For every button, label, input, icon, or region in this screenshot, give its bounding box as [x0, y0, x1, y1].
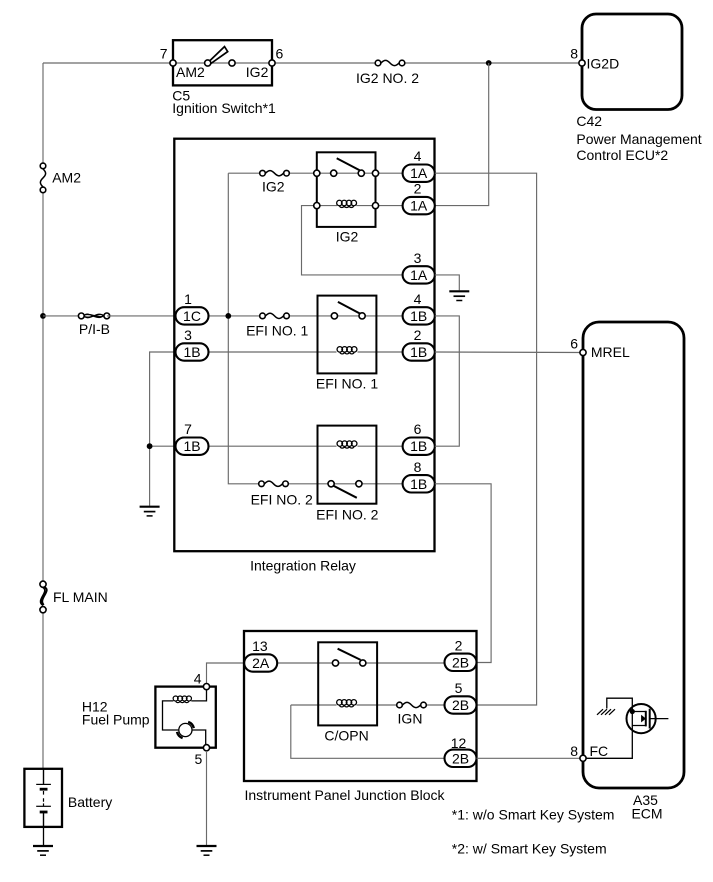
instrument panel junction block box: [244, 631, 477, 781]
relay EFI NO.2 contacts: [328, 481, 362, 487]
svg-text:5: 5: [455, 680, 463, 696]
wire: 1B pin8 down to 2B pin2 of junction block: [435, 484, 491, 663]
svg-text:FL MAIN: FL MAIN: [53, 589, 108, 605]
svg-text:P/I-B: P/I-B: [79, 321, 110, 337]
connector 1B pin2: [403, 343, 435, 360]
wire: rail to P/I-B symbol: [43, 315, 83, 317]
fuse EFI NO. 1: [260, 313, 290, 319]
svg-text:1B: 1B: [410, 344, 427, 360]
svg-text:FC: FC: [590, 743, 609, 759]
svg-text:1B: 1B: [183, 438, 200, 454]
svg-text:6: 6: [570, 335, 578, 351]
svg-text:1A: 1A: [410, 267, 428, 283]
fuse AM2 (vertical, on battery rail): [40, 163, 46, 193]
svg-text:5: 5: [195, 751, 203, 767]
svg-text:AM2: AM2: [176, 64, 205, 80]
fuel pump H12 box: [155, 687, 215, 748]
svg-text:4: 4: [414, 291, 422, 307]
relay EFI NO.2 box: [318, 426, 377, 504]
svg-text:8: 8: [414, 459, 422, 475]
relay EFI NO.1 coil: [337, 347, 357, 354]
svg-text:*1: w/o Smart Key System: *1: w/o Smart Key System: [452, 807, 615, 823]
svg-text:C42: C42: [576, 113, 602, 129]
node: junction 1C row / vertical branch: [225, 313, 231, 319]
connector 1B pin8: [403, 475, 435, 492]
twisted wire symbol P/I-B: [78, 313, 109, 319]
svg-text:Control ECU*2: Control ECU*2: [576, 147, 668, 163]
ECM output transistor (FET in circle): [627, 704, 669, 733]
svg-text:1C: 1C: [183, 308, 201, 324]
fuel pump coil: [173, 696, 191, 703]
svg-text:Power Management: Power Management: [576, 131, 701, 147]
fuse IG2 (integration relay): [260, 170, 290, 176]
svg-text:4: 4: [194, 670, 202, 686]
connector 1A pin3: [403, 266, 435, 283]
wire: 1C row from oval to 1B pin4 through EFI NO.1 relay: [209, 315, 403, 317]
fuel pump pin 5 terminal: [203, 745, 209, 751]
relay C/OPN box: [318, 642, 377, 725]
wire: P/I-B to connector 1C: [107, 315, 176, 317]
connector 1A pin4: [403, 165, 435, 182]
svg-text:Battery: Battery: [68, 794, 112, 810]
fuse IG2 NO. 2: [375, 60, 405, 66]
wire: IG2 relay coil left lead looping down to 1A pin3: [302, 206, 403, 275]
svg-text:IG2: IG2: [336, 229, 359, 245]
svg-text:*2: w/ Smart Key System: *2: w/ Smart Key System: [452, 840, 607, 856]
connector 2A pin13: [244, 654, 277, 671]
wire: 1A pin4 down right side to 2B pin5 of junction block: [435, 173, 537, 705]
node: junction on IG2D line: [486, 60, 492, 66]
pin 7 terminal of C5: [170, 60, 176, 66]
fuse FL MAIN (fusible link on battery rail): [40, 581, 47, 613]
svg-text:2B: 2B: [452, 697, 469, 713]
svg-text:8: 8: [570, 743, 578, 759]
power management control ECU C42 box: [582, 14, 682, 110]
relay IG2 coil terminals: [314, 203, 379, 209]
svg-text:3: 3: [414, 250, 422, 266]
svg-text:4: 4: [414, 148, 422, 164]
svg-text:6: 6: [276, 46, 284, 62]
relay EFI NO.2 coil: [337, 441, 357, 448]
connector 1C pin1: [176, 307, 209, 324]
svg-text:1B: 1B: [183, 344, 200, 360]
svg-text:Instrument Panel Junction Bloc: Instrument Panel Junction Block: [245, 787, 446, 803]
svg-text:AM2: AM2: [52, 170, 81, 186]
connector 2B pin12: [445, 750, 477, 767]
battery cell symbol: [36, 769, 51, 827]
wire: 1B pin3 to left then down to ground, over to 1B pin7: [150, 352, 176, 506]
svg-text:2: 2: [414, 327, 422, 343]
relay EFI NO.2 switch blade: [334, 486, 357, 498]
wire: top horizontal from rail to ignition switch pin 7: [43, 62, 173, 64]
svg-text:1B: 1B: [410, 438, 427, 454]
fuel pump motor symbol: [177, 722, 194, 738]
ECM A35 box: [583, 322, 684, 788]
relay IG2 coil: [337, 200, 357, 207]
svg-text:13: 13: [252, 638, 268, 654]
wire: IG2 fuse row inside integration relay: [228, 172, 402, 174]
svg-text:3: 3: [184, 327, 192, 343]
ECM internal FC wiring: [586, 698, 632, 758]
svg-text:1A: 1A: [410, 165, 428, 181]
relay IG2 contact terminals: [314, 170, 379, 176]
svg-text:2B: 2B: [452, 750, 469, 766]
connector 2B pin5: [445, 696, 477, 713]
connector 1B pin7: [176, 438, 209, 455]
wire: inside ignition switch pin7 to pin6: [173, 62, 272, 64]
wire: branch from IG2 fuse row down to 1C row and on to EFI NO.2 fuse: [228, 173, 258, 484]
svg-text:MREL: MREL: [591, 344, 630, 360]
svg-text:C/OPN: C/OPN: [324, 727, 368, 743]
wire: 1B pin2 to ECM MREL: [435, 351, 583, 354]
svg-text:EFI NO. 2: EFI NO. 2: [316, 507, 378, 523]
switch contact AM2: [205, 60, 211, 66]
svg-text:Ignition Switch*1: Ignition Switch*1: [172, 100, 276, 116]
svg-text:IGN: IGN: [398, 710, 423, 726]
ground below fuel pump: [197, 846, 217, 855]
wire: EFI NO.2 contact row from fuse to 1B pin8: [286, 483, 403, 485]
ground below 1B pin3/pin7 branch: [140, 507, 160, 516]
svg-text:EFI NO. 2: EFI NO. 2: [251, 492, 313, 508]
svg-text:EFI NO. 1: EFI NO. 1: [316, 375, 378, 391]
ground for IG2 relay coil (1A pin3): [449, 291, 469, 300]
svg-text:2: 2: [455, 637, 463, 653]
wire: 1A pin3 to ground: [435, 275, 460, 290]
fuse IGN: [397, 702, 427, 708]
svg-text:1B: 1B: [410, 476, 427, 492]
switch lever (ignition switch): [209, 47, 227, 64]
wire: EFI NO.2 coil row 1B pin7 to 1B pin6: [209, 445, 403, 447]
relay IG2 box: [317, 152, 376, 227]
svg-text:EFI NO. 1: EFI NO. 1: [246, 322, 308, 338]
wire: C/OPN coil row to IGN fuse and 2B pin5: [357, 704, 445, 706]
switch contact IG2: [229, 60, 235, 66]
svg-text:2B: 2B: [452, 654, 469, 670]
connector 1A pin2: [403, 197, 435, 214]
wire: 1B pin4 down to 1B pin6 (EFI NO.2 coil feed): [435, 316, 460, 446]
relay C/OPN switch blade: [338, 649, 361, 660]
wire: C/OPN coil left lead looping down to 2B pin12: [291, 705, 445, 758]
svg-text:1: 1: [184, 291, 192, 307]
relay EFI NO.1 box: [318, 296, 377, 374]
svg-text:8: 8: [570, 46, 578, 62]
wire: 2B pin12 to ECM FC: [477, 757, 584, 759]
wire: fuel pump pin5 to ground: [206, 751, 208, 845]
svg-text:ECM: ECM: [631, 806, 662, 822]
wire: C/OPN contact row 2A to 2B pin2: [277, 662, 444, 664]
connector 2B pin2: [445, 654, 477, 671]
connector 1B pin3: [176, 343, 209, 360]
svg-text:IG2D: IG2D: [587, 56, 620, 72]
wire: battery negative to ground: [43, 827, 45, 846]
svg-text:Integration Relay: Integration Relay: [250, 558, 356, 574]
relay C/OPN contacts: [332, 660, 366, 666]
wire: battery positive rail (left vertical): [42, 63, 44, 768]
wire: junction dot on IG2D line down to 1A pin2 (IG2 relay coil feed): [435, 63, 489, 206]
svg-text:IG2 NO. 2: IG2 NO. 2: [356, 70, 419, 86]
svg-text:Fuel Pump: Fuel Pump: [82, 711, 150, 727]
ground below battery: [33, 846, 53, 855]
fuse EFI NO. 2: [259, 481, 289, 487]
wire: 2A pin13 to fuel pump pin4: [207, 663, 245, 684]
wire: ignition switch pin6 to fuse IG2 NO.2: [272, 62, 378, 64]
node: junction battery rail / P-I-B branch: [40, 313, 46, 319]
svg-text:1B: 1B: [410, 308, 427, 324]
svg-text:IG2: IG2: [262, 178, 285, 194]
svg-text:2: 2: [414, 181, 422, 197]
pin 8 terminal FC: [580, 755, 586, 761]
chassis ground inside ECM: [597, 709, 615, 715]
pin 6 terminal of C5: [269, 60, 275, 66]
node: junction at ECM transistor gate: [630, 709, 635, 714]
svg-text:7: 7: [160, 46, 168, 62]
connector 1B pin6: [403, 438, 435, 455]
svg-text:7: 7: [184, 421, 192, 437]
relay C/OPN coil: [337, 700, 357, 707]
svg-text:6: 6: [414, 421, 422, 437]
battery box: [24, 769, 62, 827]
ignition switch C5 box: [173, 40, 272, 85]
svg-text:2A: 2A: [252, 655, 270, 671]
fuel pump pin 4 terminal: [203, 684, 209, 690]
wire: fuse IG2 NO.2 to ECU pin IG2D: [402, 62, 582, 64]
relay IG2 switch blade: [337, 158, 360, 170]
svg-text:IG2: IG2: [246, 64, 269, 80]
connector 1B pin4: [403, 307, 435, 324]
relay EFI NO.1 contacts: [331, 313, 365, 319]
svg-text:1A: 1A: [410, 198, 428, 214]
pin 8 terminal IG2D: [579, 60, 585, 66]
integration relay outer box: [174, 139, 434, 552]
wire: IG2 relay coil right to 1A pin2: [317, 205, 403, 207]
wire: EFI NO.1 coil row 1B pin3 to 1B pin2: [209, 351, 403, 353]
node: junction at 1B pin7 branch: [147, 443, 153, 449]
pin 6 terminal MREL: [580, 349, 586, 355]
svg-text:12: 12: [451, 735, 467, 751]
relay EFI NO.1 switch blade: [338, 302, 360, 314]
fuel pump internal wiring: [163, 690, 207, 745]
